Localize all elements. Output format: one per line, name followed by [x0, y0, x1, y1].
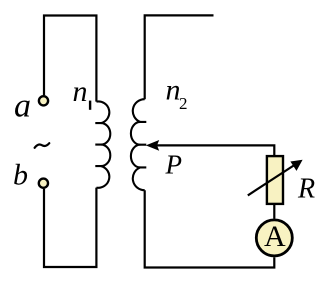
wire: R to ammeter — [273, 204, 275, 219]
svg-text:b: b — [13, 159, 28, 192]
AC source tilde — [35, 143, 50, 148]
wire: wiper P lead from n2 to R branch — [152, 145, 274, 156]
resistor R (rheostat body) — [267, 156, 283, 204]
n1 winding cusp ticks — [95, 123, 101, 166]
wiper arrowhead at P — [146, 140, 159, 151]
rheostat diagonal arrow — [248, 164, 296, 195]
wire: secondary top lead with open end — [145, 15, 214, 99]
n2 winding cusp ticks — [140, 122, 146, 168]
wire: left loop top/left/bottom (a-top-n1-bottom-b) — [44, 16, 96, 268]
terminal a — [39, 96, 48, 105]
svg-text:2: 2 — [179, 94, 188, 113]
terminal b — [39, 179, 48, 188]
svg-text:P: P — [165, 149, 183, 179]
inductor n2 secondary winding — [131, 99, 145, 190]
ammeter A — [256, 220, 292, 256]
inductor n1 primary winding — [96, 101, 110, 187]
wire: bottom lead of n2 down and along bottom to ammeter — [145, 190, 275, 267]
svg-text:A: A — [264, 220, 286, 253]
svg-text:a: a — [14, 88, 31, 125]
svg-text:n: n — [73, 75, 88, 108]
svg-text:R: R — [297, 174, 315, 205]
